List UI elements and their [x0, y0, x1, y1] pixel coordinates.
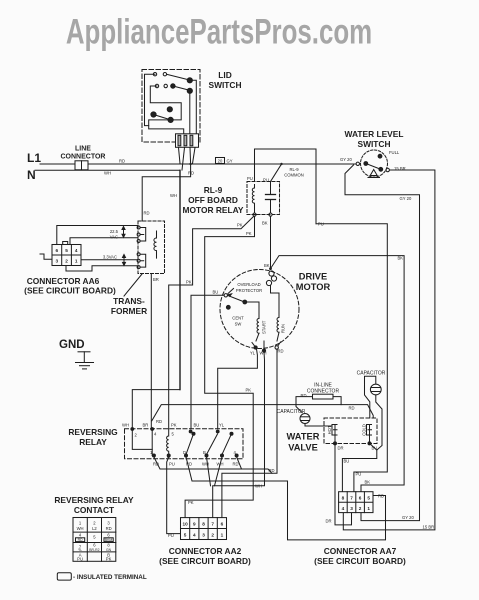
- svg-text:DRIVE: DRIVE: [299, 272, 327, 282]
- relay terminal WH 2: [131, 428, 152, 450]
- svg-text:DR: DR: [338, 446, 344, 451]
- svg-text:CONNECTOR AA7: CONNECTOR AA7: [324, 546, 397, 556]
- in-line connector: [313, 394, 334, 399]
- svg-text:WH: WH: [77, 526, 84, 531]
- svg-text:HOT: HOT: [327, 425, 332, 434]
- svg-text:RD: RD: [301, 393, 307, 398]
- svg-text:BK: BK: [365, 480, 371, 485]
- svg-text:GND: GND: [59, 339, 85, 351]
- svg-text:WATER LEVEL: WATER LEVEL: [345, 129, 404, 139]
- relay RL-9 capacitor contact: [266, 182, 276, 217]
- svg-text:LINE: LINE: [75, 146, 91, 153]
- motor terminal YL: [252, 343, 257, 350]
- wire AA6 pin6 to transformer: [57, 226, 138, 245]
- svg-text:BK: BK: [262, 221, 268, 226]
- svg-text:RELAY: RELAY: [79, 437, 107, 447]
- svg-text:BKM: BKM: [105, 538, 113, 542]
- wire capacitor top to GY line: [271, 163, 283, 182]
- svg-text:1: 1: [75, 259, 78, 264]
- water level switch: [356, 150, 389, 178]
- wire RD from L1 to transformer: [142, 163, 192, 221]
- valve COLD solenoid: [367, 425, 372, 445]
- lid switch contacts: [151, 73, 193, 123]
- label 22.5 VAC with arrows: [110, 227, 125, 240]
- svg-text:7: 7: [211, 522, 214, 527]
- svg-text:RD: RD: [78, 538, 83, 542]
- connector AA6: [52, 242, 81, 266]
- transformer primary clip: [137, 226, 146, 243]
- transformer box: [138, 221, 165, 274]
- wire relay TD RD to bottom right: [186, 457, 386, 540]
- svg-text:BU: BU: [194, 423, 200, 428]
- svg-text:WH: WH: [104, 171, 111, 176]
- reversing relay contact table: [73, 518, 116, 562]
- valve HOT solenoid: [332, 425, 337, 445]
- svg-text:PU: PU: [356, 472, 362, 477]
- svg-text:RD: RD: [378, 494, 384, 499]
- relay RL-9 coil: [252, 185, 256, 217]
- connector AA6 pin numbers: [55, 248, 77, 264]
- svg-text:4: 4: [193, 533, 196, 538]
- svg-text:COLD: COLD: [361, 424, 366, 436]
- svg-text:RD: RD: [106, 526, 112, 531]
- svg-text:PK: PK: [106, 557, 112, 562]
- svg-text:PK: PK: [237, 223, 243, 228]
- wire WH branch to relay: [132, 390, 180, 429]
- line connector: [40, 161, 88, 170]
- svg-text:L2: L2: [92, 526, 97, 531]
- svg-text:- INSULATED TERMINAL: - INSULATED TERMINAL: [73, 574, 147, 581]
- svg-text:GN: GN: [106, 548, 112, 552]
- transformer winding: [154, 231, 157, 258]
- svg-text:COMMON: COMMON: [284, 173, 304, 178]
- wire label 20 GY boxed: [216, 158, 233, 164]
- svg-text:VAC: VAC: [110, 235, 118, 240]
- wire WH motor to connector AA2: [213, 352, 265, 518]
- svg-text:RUN: RUN: [281, 324, 286, 333]
- wire relay T4 RD: [237, 457, 242, 469]
- svg-text:3: 3: [202, 533, 205, 538]
- wire 15 BR: [343, 170, 435, 530]
- contact table cell texts: [77, 521, 112, 562]
- svg-text:START: START: [262, 320, 267, 334]
- wire AA6 pin1 to transformer: [81, 259, 138, 261]
- relay terminal BR 4: [151, 428, 157, 456]
- svg-text:PK: PK: [246, 231, 252, 236]
- wire relay T5 WH: [215, 457, 223, 486]
- svg-text:GY 20: GY 20: [400, 196, 412, 201]
- svg-text:GY: GY: [227, 159, 233, 164]
- capacitor C2 bottom lead: [376, 395, 382, 450]
- relay switch arm 3: [222, 432, 233, 454]
- svg-text:AppliancePartsPros.com: AppliancePartsPros.com: [66, 12, 372, 52]
- wire BK motor to right: [269, 256, 404, 492]
- wire PU RL-9 common: [255, 149, 317, 224]
- svg-text:RL-9: RL-9: [204, 185, 223, 195]
- svg-text:BR: BR: [153, 277, 159, 282]
- lid switch internal wiring: [145, 74, 197, 134]
- wire relay TA PU to AA2: [167, 457, 181, 534]
- svg-text:CENT: CENT: [232, 316, 244, 321]
- wire YL motor to relay: [218, 349, 258, 429]
- svg-text:PK: PK: [246, 388, 252, 393]
- svg-text:RD: RD: [144, 211, 150, 216]
- label 3.3VAC with arrows: [103, 255, 126, 266]
- wire BU valve to AA7: [342, 443, 376, 491]
- svg-text:CONNECTOR AA6: CONNECTOR AA6: [27, 276, 100, 286]
- svg-text:PU: PU: [77, 557, 83, 562]
- svg-text:B: B: [203, 450, 206, 455]
- svg-text:SWITCH: SWITCH: [357, 139, 390, 149]
- svg-text:PU: PU: [263, 178, 269, 183]
- motor terminal WH: [262, 341, 265, 352]
- reversing relay box: [125, 429, 244, 459]
- relay bottom terminals: [152, 454, 238, 457]
- relay bottom terminal numbers: [150, 450, 237, 455]
- wire GY 20 branch down: [345, 165, 420, 521]
- svg-text:15 BR: 15 BR: [423, 525, 435, 530]
- svg-text:RD: RD: [233, 462, 239, 467]
- svg-text:OFF BOARD: OFF BOARD: [188, 195, 238, 205]
- svg-text:(SEE CIRCUIT BOARD): (SEE CIRCUIT BOARD): [314, 556, 406, 566]
- svg-text:CAPACITOR: CAPACITOR: [277, 409, 306, 415]
- connector AA7 pin numbers: [342, 496, 371, 512]
- svg-text:5: 5: [184, 533, 187, 538]
- svg-text:PROTECTOR: PROTECTOR: [236, 288, 262, 293]
- svg-text:7: 7: [350, 496, 353, 501]
- wire PK RL-9 coil to relay coil: [169, 217, 254, 429]
- svg-text:6: 6: [55, 248, 58, 253]
- svg-text:GY 20: GY 20: [340, 157, 352, 162]
- wire PU RL-9 common to AA7: [316, 224, 387, 492]
- svg-text:N: N: [27, 168, 36, 182]
- centrifugal switch: [224, 289, 259, 319]
- svg-text:RD: RD: [278, 349, 284, 354]
- svg-text:CONNECTOR AA2: CONNECTOR AA2: [169, 546, 242, 556]
- ground symbol: [76, 352, 94, 369]
- wire relay T1 RD: [154, 457, 272, 473]
- svg-text:22.5: 22.5: [110, 229, 119, 234]
- svg-text:2: 2: [65, 259, 68, 264]
- transformer secondary clip: [137, 253, 146, 269]
- connector AA2 pin numbers: [182, 522, 223, 538]
- relay coil PK 5: [167, 429, 175, 459]
- wire AA6 pin2 to transformer: [66, 266, 138, 272]
- terminal labels YL WH RD: [250, 349, 284, 356]
- svg-text:3: 3: [350, 506, 353, 511]
- svg-text:BU: BU: [344, 459, 350, 464]
- wire L1 / GY to water level switch: [88, 163, 356, 165]
- svg-text:2: 2: [359, 506, 362, 511]
- lid switch connector: [176, 134, 199, 148]
- svg-text:REVERSING: REVERSING: [68, 427, 117, 437]
- svg-text:PU: PU: [168, 533, 174, 538]
- svg-text:(SEE CIRCUIT BOARD): (SEE CIRCUIT BOARD): [24, 286, 116, 296]
- svg-text:2: 2: [211, 533, 214, 538]
- svg-text:5: 5: [367, 496, 370, 501]
- connector AA7: [339, 492, 373, 513]
- lid switch box: [142, 70, 200, 143]
- svg-text:5: 5: [65, 248, 68, 253]
- svg-text:D: D: [183, 450, 186, 455]
- wire RD motor to connector AA2: [222, 349, 277, 518]
- svg-text:WATER: WATER: [287, 432, 320, 442]
- svg-text:PU: PU: [247, 176, 253, 181]
- svg-text:BR-R2: BR-R2: [89, 548, 99, 552]
- water valve box: [324, 418, 377, 444]
- svg-text:FORMER: FORMER: [111, 306, 147, 316]
- svg-text:6: 6: [359, 496, 362, 501]
- relay switch arm 1: [186, 430, 195, 454]
- connector AA2: [181, 518, 227, 540]
- svg-text:RL-9: RL-9: [289, 167, 299, 172]
- insulated terminal legend: [57, 573, 147, 581]
- svg-text:DR: DR: [326, 519, 332, 524]
- svg-text:9: 9: [193, 522, 196, 527]
- svg-text:YL: YL: [219, 423, 225, 428]
- svg-text:PU: PU: [169, 462, 175, 467]
- capacitor C2 top lead: [365, 376, 376, 418]
- svg-text:SW: SW: [235, 322, 242, 327]
- svg-text:4: 4: [75, 248, 78, 253]
- svg-text:20: 20: [218, 159, 223, 164]
- svg-text:GY 20: GY 20: [402, 515, 414, 520]
- svg-text:BR: BR: [143, 423, 149, 428]
- svg-text:CONNECTOR: CONNECTOR: [61, 154, 106, 161]
- svg-text:8: 8: [202, 522, 205, 527]
- lid switch connector leads: [179, 148, 196, 170]
- svg-text:10: 10: [182, 522, 188, 527]
- svg-text:3: 3: [55, 259, 58, 264]
- relay RL-9 box: [247, 182, 280, 215]
- drive motor circle: [220, 270, 299, 349]
- svg-text:RD: RD: [188, 171, 194, 176]
- svg-text:WH: WH: [255, 484, 262, 489]
- svg-text:L1: L1: [27, 151, 41, 165]
- wire DR valve to AA7: [335, 443, 352, 525]
- svg-text:PK: PK: [188, 500, 194, 505]
- start winding: [256, 319, 259, 342]
- svg-text:LID: LID: [218, 70, 232, 80]
- svg-text:(SEE CIRCUIT BOARD): (SEE CIRCUIT BOARD): [159, 556, 251, 566]
- run winding: [271, 293, 280, 341]
- svg-text:VALVE: VALVE: [288, 443, 318, 453]
- svg-text:OVERLOAD: OVERLOAD: [237, 282, 260, 287]
- capacitor C3: [300, 414, 310, 424]
- svg-text:RD: RD: [156, 419, 162, 424]
- wire AA6 pin4 to transformer: [70, 238, 138, 245]
- relay switch arm 2: [207, 430, 220, 454]
- capacitor C3 bottom lead to valve: [305, 424, 331, 427]
- overload protector: [266, 271, 276, 293]
- svg-text:TRANS-: TRANS-: [113, 296, 145, 306]
- motor terminal RD: [275, 342, 281, 349]
- svg-text:REVERSING RELAY: REVERSING RELAY: [54, 495, 134, 505]
- capacitor C2: [370, 384, 381, 395]
- wire BU motor to reversing relay: [191, 295, 224, 429]
- wire BR transformer down to relay: [150, 274, 152, 429]
- svg-text:CONTACT: CONTACT: [74, 505, 115, 515]
- svg-text:WH: WH: [260, 351, 267, 356]
- wire AA6 pin3 stub: [40, 254, 52, 259]
- svg-text:FULL: FULL: [389, 150, 400, 155]
- wire WH main vertical: [179, 170, 181, 389]
- wire in-line right to RD line: [333, 397, 341, 405]
- svg-text:PK: PK: [171, 423, 177, 428]
- svg-text:MOTOR: MOTOR: [296, 282, 331, 292]
- long wire RD relay to water valve: [152, 405, 373, 421]
- wire in-line left to capacitor C3: [296, 397, 313, 413]
- contact table insulated cells: [76, 538, 114, 542]
- svg-text:CAPACITOR: CAPACITOR: [357, 371, 386, 377]
- svg-text:BU: BU: [213, 290, 219, 295]
- wire relay TB WH: [207, 457, 211, 486]
- svg-text:6: 6: [221, 522, 224, 527]
- wire PK RL-9 coil to connector AA2: [185, 216, 254, 517]
- svg-text:YL: YL: [250, 351, 256, 356]
- svg-text:8: 8: [342, 496, 345, 501]
- svg-text:BK: BK: [264, 263, 270, 268]
- wire BK from RL-9 down to motor: [270, 216, 272, 268]
- wire N / WH: [35, 169, 180, 171]
- relay bottom labels: [153, 462, 239, 467]
- svg-text:1: 1: [367, 506, 370, 511]
- svg-text:RD: RD: [119, 159, 125, 164]
- svg-text:SWITCH: SWITCH: [208, 80, 241, 90]
- svg-text:BK: BK: [398, 256, 404, 261]
- svg-text:WH: WH: [122, 423, 129, 428]
- svg-text:RD: RD: [349, 406, 355, 411]
- svg-text:WH: WH: [170, 193, 177, 198]
- svg-text:PK: PK: [186, 280, 192, 285]
- transformer leader line: [124, 274, 142, 296]
- svg-text:MOTOR RELAY: MOTOR RELAY: [183, 205, 244, 215]
- svg-text:3.3VAC: 3.3VAC: [103, 255, 117, 260]
- svg-text:1: 1: [221, 533, 224, 538]
- svg-text:YL: YL: [78, 548, 82, 552]
- svg-text:4: 4: [342, 506, 345, 511]
- svg-text:CONNECTOR: CONNECTOR: [307, 389, 340, 395]
